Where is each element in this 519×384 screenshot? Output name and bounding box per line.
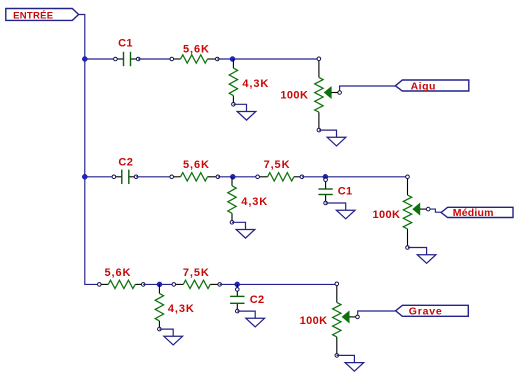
node junction row1 / 4,3K tap [230,57,235,62]
wire wiper row3 to Grave flag [358,311,396,315]
ground [408,248,436,264]
resistor 7,5K (row 2) [256,173,304,181]
svg-text:C2: C2 [250,294,265,306]
output flag Grave [396,305,469,317]
node junction row2 / C1 tap [323,174,328,179]
svg-text:7,5K: 7,5K [183,267,210,279]
wire C2 to R 5,6K row2 [136,176,172,178]
ground [159,329,182,345]
svg-text:100K: 100K [280,89,308,101]
capacitor C1 (row 2) [318,177,332,205]
node junction row1 bus [82,57,87,62]
wire wiper row1 to Aigu flag [340,86,396,90]
node junction row3 / 4,3K tap [157,282,162,287]
output flag Aigu [395,80,468,92]
wire R 7,5K to pot row3 [220,283,337,285]
resistor 7,5K (row 3) [172,280,222,288]
resistor 4,3K (row 3) [155,284,163,331]
output flag Médium [441,207,513,219]
svg-text:C1: C1 [338,186,353,198]
capacitor C2 (row 3) [230,284,244,313]
ground [237,311,264,327]
wire row2 bus-junction to C2 [85,176,114,178]
svg-text:100K: 100K [300,315,328,327]
svg-text:ENTRÉE: ENTRÉE [13,10,53,21]
resistor 5,6K (row 3) [98,280,146,288]
svg-text:C2: C2 [118,156,133,168]
wire wiper row2 to Médium flag [430,209,442,212]
resistor 5,6K (row 2) [170,173,220,181]
wire R 5,6K to R 7,5K row3 [143,283,174,285]
potentiometer 100K (row 2) [403,175,430,249]
svg-text:4,3K: 4,3K [241,196,268,208]
resistor 4,3K (row 1) [229,59,237,106]
wire R 5,6K to pot 100K [217,58,319,60]
svg-text:7,5K: 7,5K [264,159,291,171]
potentiometer 100K (row 3) [333,282,360,357]
svg-text:C1: C1 [118,38,133,50]
capacitor C2 (row 2) [112,170,138,184]
svg-text:4,3K: 4,3K [242,78,269,90]
svg-text:Médium: Médium [453,207,494,219]
ground [326,203,355,219]
potentiometer 100K (row 1) [315,57,342,132]
svg-text:Aigu: Aigu [411,80,436,92]
capacitor C1 (row 1) [114,52,140,66]
wire R 7,5K to pot row2 [302,176,408,178]
ground [337,355,364,371]
ground [319,130,346,146]
svg-text:5,6K: 5,6K [183,159,210,171]
svg-text:5,6K: 5,6K [104,267,131,279]
resistor 5,6K (row 1) [170,55,219,63]
svg-text:Grave: Grave [409,306,443,318]
node junction row2 / 4,3K tap [230,174,235,179]
wire row1 bus-junction to C1 [85,58,116,60]
svg-text:5,6K: 5,6K [183,43,210,55]
svg-text:100K: 100K [373,209,401,221]
wire C1 to R 5,6K [138,58,172,60]
input flag ENTRÉE [6,9,79,22]
ground [232,222,255,238]
node junction row2 bus [82,174,87,179]
ground [233,104,255,120]
svg-text:4,3K: 4,3K [168,303,195,315]
node junction row3 / C2 tap [235,282,240,287]
resistor 4,3K (row 2) [228,177,236,224]
wire R 5,6K to R 7,5K row2 [218,176,258,178]
wire input bus [79,15,100,285]
